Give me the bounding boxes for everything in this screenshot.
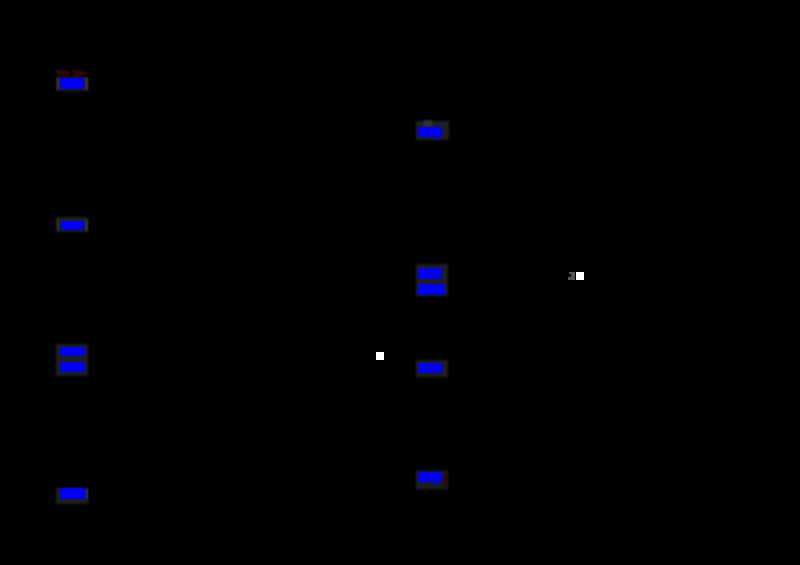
citation link 2 left bracket	[57, 220, 60, 231]
citation link 8, right column: halo	[416, 471, 448, 489]
citation link 1 blue text blob	[60, 78, 84, 90]
citation link 2 blue text blob	[61, 221, 85, 231]
citation link 7, right column: halo	[416, 360, 448, 377]
citation link 6 blue blob line 1	[418, 268, 442, 279]
citation link 6 (two lines), right column: halo	[416, 264, 448, 297]
citation link 4 blue text blob	[60, 488, 86, 499]
gray digit 2 before qed square 2	[569, 272, 575, 274]
qed square 2, end of proof in right column	[576, 272, 584, 280]
citation link 5 blue descender	[435, 137, 439, 141]
citation link 1 right bracket	[85, 78, 88, 90]
citation link 1, left column line 1: gray halo of surrounding black text	[56, 77, 88, 91]
citation link 3 blue blob line 1	[60, 347, 85, 356]
citation link 8 blue descender	[434, 482, 438, 485]
qed square 1, end of proof in left column	[376, 352, 384, 360]
citation link 6 blue blob line 2	[418, 284, 445, 295]
citation link 2 right bracket	[85, 220, 88, 231]
dark red ref link text above citation 1, line y70	[57, 70, 70, 76]
citation link 4, left column: halo	[56, 488, 88, 505]
gray ascender block above link 5	[424, 120, 432, 127]
citation link 5 blue text blob	[418, 127, 443, 137]
citation link 7 blue text blob	[418, 363, 443, 373]
citation link 4 right bracket	[86, 489, 89, 499]
citation link 3 blue blob line 2	[60, 362, 86, 372]
citation link 1 left bracket	[57, 78, 60, 90]
faint dark red ref right of link 8	[443, 474, 448, 487]
citation link 5, right column: halo	[416, 121, 449, 140]
citation link 2, left column: halo	[56, 217, 88, 233]
citation link 3 (two lines), left column: halo	[56, 344, 88, 376]
citation link 8 blue text blob	[418, 472, 442, 482]
